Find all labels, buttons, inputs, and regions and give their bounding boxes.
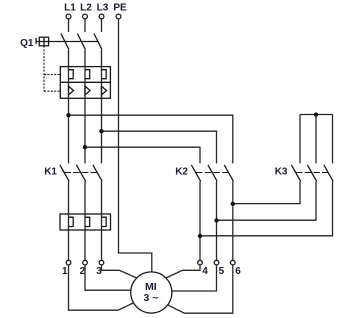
svg-text:L2: L2 <box>80 3 92 14</box>
wire K3 pole3 out <box>200 182 333 236</box>
switch Q1 blade pole3 <box>94 34 102 50</box>
thermal relay F1 box <box>60 214 111 230</box>
magnetic release pole2 <box>85 86 90 95</box>
Q1 handle cross <box>39 37 48 46</box>
motor M1 circle <box>131 272 172 313</box>
thermal relay element pole1 <box>69 217 74 226</box>
terminal L1 <box>66 14 71 19</box>
terminal 2 <box>83 260 88 265</box>
wire K2 out pole2 <box>216 182 218 261</box>
svg-text:1: 1 <box>62 266 68 277</box>
breaker divider <box>60 81 110 83</box>
Q1 actuator bar <box>49 41 98 43</box>
wire L2 through breaker <box>84 50 86 163</box>
wire K3 pole1 drop <box>299 115 301 164</box>
svg-text:PE: PE <box>113 3 127 14</box>
terminal 1 <box>66 260 71 265</box>
node K3p3 join <box>198 234 202 238</box>
node L2 branch <box>83 145 87 149</box>
K1 linkage dashed <box>65 172 98 174</box>
svg-text:L1: L1 <box>64 3 76 14</box>
thermal release pole2 <box>85 70 90 79</box>
terminal 5 <box>214 260 219 265</box>
wire L1 to K2 pole3 <box>69 115 233 163</box>
wire T4 to motor <box>166 265 200 278</box>
Q1 handle box <box>39 37 48 46</box>
wire T3 to motor <box>102 265 137 278</box>
wire K3 pole3 drop <box>332 115 334 164</box>
wire T2 to motor <box>85 265 131 290</box>
switch Q1 blade pole2 <box>77 34 85 50</box>
wire K3 pole2 drop <box>315 115 317 164</box>
wire K1 out pole2 <box>84 182 86 261</box>
contactor K2 blade1 <box>191 165 200 182</box>
svg-text:4: 4 <box>202 266 208 277</box>
wire K2 out pole1 <box>199 182 201 261</box>
svg-text:MI: MI <box>145 281 157 293</box>
svg-text:K3: K3 <box>275 167 288 178</box>
svg-text:6: 6 <box>235 266 241 277</box>
node K3p2 join <box>214 218 218 222</box>
contactor K3 blade1 <box>291 165 300 182</box>
wire L2 drop to Q1 <box>84 19 86 32</box>
node star point <box>314 112 318 116</box>
terminal 6 <box>231 260 236 265</box>
node L3 branch <box>99 129 103 133</box>
wire T1 to motor <box>69 265 134 310</box>
switch Q1 blade pole1 <box>61 34 69 50</box>
contactor K1 blade3 <box>93 165 102 182</box>
thermal relay element pole3 <box>102 217 107 226</box>
terminal 4 <box>198 260 203 265</box>
contactor K1 blade1 <box>60 165 69 182</box>
wire L1 through breaker <box>68 50 70 163</box>
svg-text:L3: L3 <box>97 3 109 14</box>
terminal 3 <box>99 260 104 265</box>
wire K3 pole1 out <box>233 182 300 204</box>
wire T6 to motor <box>168 265 233 313</box>
K3 star bridge <box>300 114 333 116</box>
terminal PE <box>116 14 121 19</box>
K2 linkage dashed <box>196 172 229 174</box>
wire K1 out pole1 <box>68 182 70 261</box>
wire T5 to motor <box>172 265 217 291</box>
Q1 linkage dashed <box>44 46 60 91</box>
contactor K3 blade2 <box>307 165 316 182</box>
wire L1 drop to Q1 <box>68 19 70 32</box>
Q1 handle tick <box>36 38 39 44</box>
wire K3 pole2 out <box>217 182 317 221</box>
node K3p1 join <box>231 202 235 206</box>
wire L3 drop to Q1 <box>101 19 103 32</box>
breaker Q1 box <box>60 67 110 99</box>
svg-text:3 ~: 3 ~ <box>143 292 158 304</box>
contactor K2 blade2 <box>208 165 217 182</box>
contactor K2 blade3 <box>224 165 233 182</box>
terminal L3 <box>99 14 104 19</box>
magnetic release pole3 <box>102 86 107 95</box>
magnetic release pole1 <box>69 86 74 95</box>
wire K2 out pole3 <box>232 182 234 261</box>
thermal release pole1 <box>69 70 74 79</box>
wire PE down <box>119 19 152 272</box>
thermal release pole3 <box>102 70 107 79</box>
svg-text:5: 5 <box>219 266 225 277</box>
svg-text:K2: K2 <box>175 167 188 178</box>
K3 linkage dashed <box>296 172 329 174</box>
node L1 branch <box>66 113 70 117</box>
wire L3 through breaker <box>101 50 103 163</box>
wire L2 to K2 pole1 <box>85 147 200 163</box>
wire L3 to K2 pole2 <box>102 131 217 163</box>
svg-text:Q1: Q1 <box>20 38 34 49</box>
contactor K1 blade2 <box>76 165 85 182</box>
svg-text:K1: K1 <box>44 167 57 178</box>
thermal relay element pole2 <box>85 217 90 226</box>
contactor K3 blade3 <box>324 165 333 182</box>
wire K1 out pole3 <box>101 182 103 261</box>
terminal L2 <box>83 14 88 19</box>
